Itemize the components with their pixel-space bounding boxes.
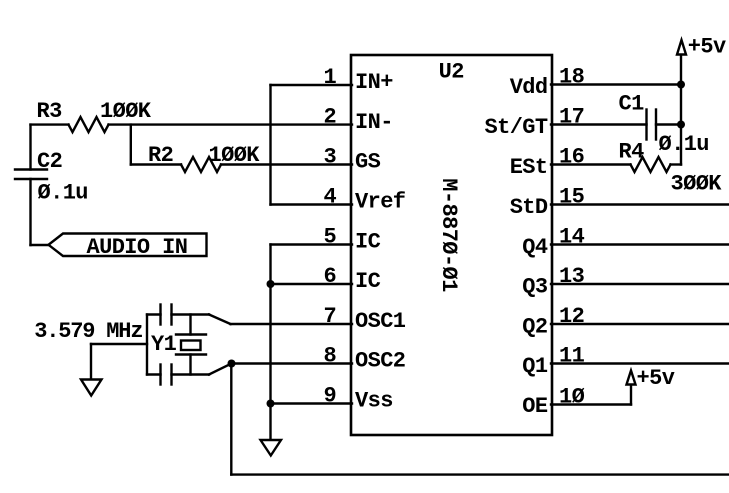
svg-text:1ØØK: 1ØØK bbox=[100, 99, 152, 124]
op-amp U1 IC body U2 rectangle bbox=[351, 55, 552, 435]
resistor R3 bbox=[69, 117, 109, 132]
svg-text:6: 6 bbox=[324, 264, 337, 289]
svg-text:Q1: Q1 bbox=[522, 354, 548, 379]
svg-text:1: 1 bbox=[324, 65, 337, 90]
svg-text:R4: R4 bbox=[619, 140, 645, 165]
wire pin15 StD bbox=[551, 203, 729, 205]
wire pin13 Q3 bbox=[551, 283, 729, 285]
svg-text:AUDIO IN: AUDIO IN bbox=[87, 235, 188, 260]
svg-text:C1: C1 bbox=[619, 92, 645, 117]
svg-text:Ø.1u: Ø.1u bbox=[38, 181, 88, 206]
wire pin12 Q2 bbox=[551, 323, 729, 325]
wire +5v rail vertical bbox=[680, 55, 682, 165]
wire OE to +5v bbox=[630, 385, 632, 405]
wire OSC2 diagonal bbox=[209, 364, 232, 375]
svg-text:IN-: IN- bbox=[355, 110, 393, 135]
wire R4 to +5v rail bbox=[671, 163, 682, 165]
wire pin14 Q4 bbox=[551, 243, 729, 245]
junction pin9 bus bbox=[267, 400, 275, 408]
svg-text:Ø.1u: Ø.1u bbox=[659, 132, 709, 157]
svg-text:StD: StD bbox=[510, 195, 548, 220]
capacitor top of crystal Y1 bbox=[147, 313, 161, 315]
wire C2 top vertical bbox=[29, 125, 31, 170]
wire pin2 row (C2/R3 to IN-) bbox=[31, 123, 69, 125]
svg-text:IN+: IN+ bbox=[355, 70, 393, 95]
wire pin18 Vdd bbox=[551, 83, 681, 85]
crystal Y1 symbol bbox=[189, 315, 191, 335]
wire OSC2 to bottom rail vertical bbox=[230, 364, 232, 475]
svg-text:1Ø: 1Ø bbox=[559, 385, 585, 410]
wire pin9 Vss bbox=[271, 402, 353, 404]
wire pin16 ESt to R4 bbox=[551, 163, 631, 165]
wire bottom rail bbox=[231, 473, 729, 475]
wire pin5 IC bbox=[271, 243, 353, 245]
junction OSC2 bbox=[228, 360, 236, 368]
wire pin17 St/GT to C1 bbox=[551, 123, 647, 125]
svg-text:ESt: ESt bbox=[510, 155, 548, 180]
wire OSC2 horizontal bbox=[232, 362, 353, 364]
ground symbol crystal bbox=[81, 380, 102, 396]
svg-text:Q3: Q3 bbox=[522, 274, 548, 299]
wire R2 to GS pin3 bbox=[221, 163, 352, 165]
wire pin4 Vref bbox=[271, 203, 353, 205]
svg-text:1ØØK: 1ØØK bbox=[209, 143, 261, 168]
svg-text:OSC2: OSC2 bbox=[355, 349, 405, 374]
power +5v arrow top bbox=[677, 40, 686, 55]
svg-text:17: 17 bbox=[559, 105, 584, 130]
svg-text:9: 9 bbox=[324, 384, 337, 409]
svg-text:18: 18 bbox=[559, 65, 585, 90]
wire pin11 Q1 bbox=[551, 362, 729, 364]
wire OSC1 diagonal bbox=[209, 315, 231, 325]
wire 3.579MHz ground stub bbox=[91, 343, 147, 345]
svg-text:M-887Ø-Ø1: M-887Ø-Ø1 bbox=[436, 178, 461, 292]
wire R2 left bbox=[131, 163, 181, 165]
wire input bus vertical pins 1-4 bbox=[269, 85, 271, 205]
svg-text:5: 5 bbox=[324, 225, 337, 250]
svg-text:8: 8 bbox=[324, 344, 337, 369]
svg-text:Q4: Q4 bbox=[522, 235, 548, 260]
svg-text:3: 3 bbox=[324, 145, 337, 170]
svg-text:4: 4 bbox=[324, 185, 337, 210]
ground symbol below Vss bus bbox=[261, 440, 282, 456]
wire R3 to IN- bbox=[109, 123, 353, 125]
capacitor C2 plates bbox=[15, 168, 47, 170]
wire pin10 OE bbox=[551, 403, 631, 405]
svg-text:Vss: Vss bbox=[355, 389, 393, 414]
junction pin6 bus bbox=[267, 280, 275, 288]
svg-text:13: 13 bbox=[559, 264, 585, 289]
svg-text:U2: U2 bbox=[439, 60, 464, 85]
wire pin1 IN+ bbox=[271, 84, 353, 86]
svg-text:16: 16 bbox=[559, 145, 584, 170]
svg-text:3.579 MHz: 3.579 MHz bbox=[34, 319, 142, 344]
svg-text:15: 15 bbox=[559, 185, 585, 210]
svg-text:+5v: +5v bbox=[637, 366, 675, 391]
wire to AUDIO IN flag bbox=[31, 244, 49, 246]
wire OSC1 horizontal bbox=[231, 323, 353, 325]
svg-text:GS: GS bbox=[355, 150, 381, 175]
svg-text:IC: IC bbox=[355, 230, 381, 255]
wire C1 to +5v rail bbox=[656, 123, 681, 125]
svg-text:3ØØK: 3ØØK bbox=[671, 172, 723, 197]
wire C2 bottom vertical bbox=[29, 179, 31, 245]
resistor R2 bbox=[181, 157, 221, 172]
svg-text:7: 7 bbox=[324, 304, 337, 329]
resistor R4 bbox=[631, 157, 671, 172]
wire ground bus vertical pins 5,6,9 bbox=[269, 245, 271, 441]
svg-text:12: 12 bbox=[559, 304, 584, 329]
junction Vdd rail bbox=[677, 81, 685, 89]
junction C1 rail bbox=[677, 121, 685, 129]
svg-text:Q2: Q2 bbox=[522, 314, 547, 339]
svg-text:C2: C2 bbox=[37, 149, 62, 174]
svg-text:11: 11 bbox=[559, 344, 585, 369]
svg-text:Y1: Y1 bbox=[151, 332, 177, 357]
node AUDIO IN flag bbox=[49, 234, 207, 257]
svg-text:R2: R2 bbox=[148, 143, 173, 168]
capacitor C1 plates bbox=[645, 110, 647, 140]
svg-text:Vdd: Vdd bbox=[510, 75, 548, 100]
svg-text:OE: OE bbox=[522, 394, 548, 419]
svg-text:OSC1: OSC1 bbox=[355, 309, 406, 334]
capacitor bottom of crystal Y1 bbox=[147, 373, 161, 375]
svg-text:+5v: +5v bbox=[688, 35, 726, 60]
wire pin6 IC bbox=[271, 283, 353, 285]
svg-text:IC: IC bbox=[355, 269, 381, 294]
svg-text:R3: R3 bbox=[37, 99, 63, 124]
svg-text:St/GT: St/GT bbox=[484, 115, 547, 140]
power +5v arrow at OE bbox=[627, 371, 636, 385]
svg-text:14: 14 bbox=[559, 225, 585, 250]
svg-text:Vref: Vref bbox=[355, 190, 406, 215]
wire crystal left bus bbox=[146, 315, 148, 375]
wire R3/R2 link vertical bbox=[130, 125, 132, 165]
svg-text:2: 2 bbox=[324, 105, 337, 130]
